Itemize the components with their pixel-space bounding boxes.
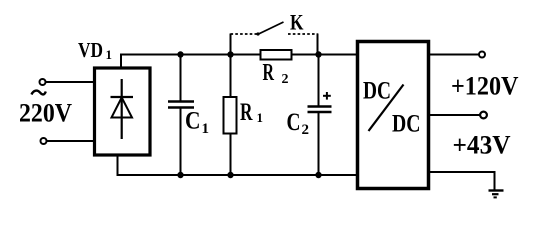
- wire bottom rail: [117, 174, 358, 176]
- label +43V: [453, 131, 511, 160]
- svg-text:DC: DC: [392, 111, 421, 138]
- label VD1: [78, 38, 112, 62]
- switch K right dashed contact: [288, 33, 318, 35]
- wire output +43V: [429, 114, 480, 116]
- rectifier U1 box: [95, 68, 151, 155]
- node C2 top: [315, 51, 321, 57]
- label +120V: [451, 72, 519, 101]
- label DC lower: [392, 111, 421, 138]
- wire rectifier bottom stub: [117, 157, 119, 176]
- node R1 top: [227, 51, 233, 57]
- svg-text:1: 1: [106, 47, 113, 62]
- svg-text:+43V: +43V: [453, 131, 511, 160]
- svg-text:1: 1: [257, 110, 264, 125]
- svg-text:K: K: [290, 10, 304, 35]
- AC tilde symbol: [32, 91, 46, 95]
- label DC upper: [363, 78, 391, 105]
- DC/DC slash: [369, 85, 404, 132]
- svg-text:VD: VD: [78, 38, 103, 62]
- wire R1 lower: [230, 134, 232, 176]
- label R1: [240, 99, 263, 126]
- wire input top: [46, 81, 94, 83]
- svg-text:C: C: [185, 108, 201, 135]
- node C1 bottom: [177, 172, 183, 178]
- wire output ground: [429, 172, 495, 190]
- switch K branch left riser: [230, 34, 232, 55]
- wire top rail: [120, 54, 356, 56]
- label 220V: [19, 99, 72, 128]
- node C1 top: [177, 51, 183, 57]
- svg-text:2: 2: [302, 122, 310, 138]
- capacitor C1: [168, 102, 194, 108]
- switch K right riser: [317, 34, 319, 55]
- svg-text:R: R: [263, 60, 275, 86]
- switch K left dashed contact: [231, 33, 260, 35]
- svg-text:R: R: [240, 99, 253, 126]
- label C1: [185, 108, 209, 138]
- plus sign C2: [323, 92, 331, 100]
- svg-text:+120V: +120V: [451, 72, 519, 101]
- wire R1 upper: [230, 55, 232, 98]
- wire C1 upper: [180, 55, 182, 102]
- wire input bottom: [47, 140, 94, 142]
- rectifier diode symbol: [111, 79, 134, 139]
- wire output +120V: [429, 54, 479, 56]
- svg-text:C: C: [287, 109, 301, 136]
- node C2 bottom: [315, 172, 321, 178]
- input terminal bottom: [41, 138, 47, 144]
- output terminal +43V: [480, 112, 487, 119]
- svg-text:2: 2: [282, 72, 289, 87]
- input terminal top: [40, 79, 46, 85]
- label K: [290, 10, 304, 35]
- wire C1 lower: [180, 108, 182, 176]
- switch K blade: [256, 22, 283, 36]
- resistor R1: [224, 97, 237, 134]
- converter U2 DC/DC box: [358, 42, 429, 189]
- ground: [489, 191, 504, 198]
- svg-text:1: 1: [202, 121, 210, 137]
- wire C2 upper: [318, 55, 320, 107]
- wire C2 lower: [318, 112, 320, 175]
- output terminal +120V: [479, 52, 485, 58]
- wire rectifier top stub to top rail: [120, 55, 122, 67]
- resistor R2: [261, 50, 292, 60]
- capacitor C2: [308, 107, 332, 113]
- svg-text:220V: 220V: [19, 99, 72, 128]
- svg-text:DC: DC: [363, 78, 391, 105]
- label C2: [287, 109, 310, 138]
- label R2: [263, 60, 289, 87]
- node R1 bottom: [227, 172, 233, 178]
